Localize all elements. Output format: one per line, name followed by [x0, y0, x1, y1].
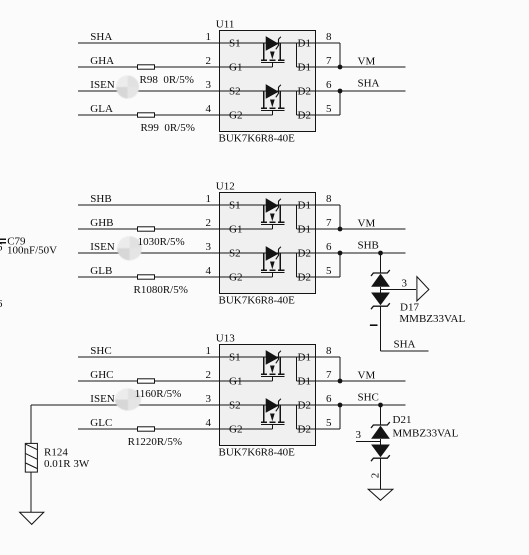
svg-text:S2: S2: [229, 86, 241, 98]
svg-text:1: 1: [206, 345, 212, 357]
svg-text:BUK7K6R8-40E: BUK7K6R8-40E: [219, 132, 296, 144]
transistor U11 MOSFET A: [261, 37, 285, 67]
svg-text:SHB: SHB: [358, 240, 379, 252]
svg-text:D2: D2: [298, 248, 311, 260]
svg-text:BUK7K6R8-40E: BUK7K6R8-40E: [219, 294, 296, 306]
svg-text:VM: VM: [358, 56, 376, 68]
wire net GLA to U11 pin4/G2 (through resistor): [78, 114, 273, 116]
svg-text:2: 2: [369, 473, 381, 479]
transistor U13 MOSFET B: [261, 399, 285, 429]
wire D17 common pin 3 to port: [381, 288, 417, 290]
redaction blob U13: [115, 389, 141, 411]
wire net GHB to U12 pin2/G1 (through resistor): [78, 228, 273, 230]
resistor R124 body (power, hatched): [25, 443, 37, 472]
svg-text:8: 8: [326, 193, 332, 205]
wire net GHC to U13 pin2/G1 (through resistor): [78, 380, 273, 382]
wire net GLB to U12 pin4/G2 (through resistor): [78, 276, 273, 278]
svg-text:D2: D2: [298, 424, 311, 436]
svg-text:MMBZ33VAL: MMBZ33VAL: [393, 427, 459, 439]
svg-text:D1: D1: [298, 38, 311, 50]
svg-text:GLA: GLA: [90, 103, 113, 115]
wire D21 pin2 down: [380, 458, 382, 489]
svg-text:6: 6: [326, 79, 332, 91]
svg-text:D2: D2: [298, 110, 311, 122]
svg-text:4: 4: [206, 103, 212, 115]
svg-text:D1: D1: [298, 62, 311, 74]
svg-text:GHB: GHB: [90, 217, 113, 229]
svg-text:D1: D1: [298, 352, 311, 364]
wire net SHB to U12 pin1/S1 and pin8 stub: [78, 204, 340, 206]
svg-text:G1: G1: [229, 62, 242, 74]
wire drain bracket D2 U11: [296, 91, 298, 115]
svg-text:7: 7: [326, 55, 332, 67]
svg-text:R1220R/5%: R1220R/5%: [128, 436, 182, 448]
junction SHC / D21: [378, 403, 383, 408]
svg-text:D21: D21: [393, 414, 412, 426]
wire U12 pin7 D1 to net VM: [297, 228, 406, 230]
svg-text:ISEN: ISEN: [90, 241, 115, 253]
transistor U12 MOSFET A: [261, 199, 285, 229]
svg-text:1: 1: [206, 193, 212, 205]
svg-text:D1: D1: [298, 200, 311, 212]
wire ISENSC to R124: [30, 405, 32, 443]
junction U13 pin7/pin8: [338, 379, 343, 384]
IC U13 body (BUK7K6R8-40E dual MOSFET): [220, 345, 316, 446]
svg-text:R1080R/5%: R1080R/5%: [134, 284, 188, 296]
svg-text:D1: D1: [298, 224, 311, 236]
wire net SHA from D17: [381, 350, 429, 352]
wire net ISEN to U12 pin3/S2 and pin6 to net SHB: [78, 252, 406, 254]
wire U13 pin7 D1 to net VM: [297, 380, 406, 382]
wire drain bracket D1 U11: [296, 43, 298, 67]
wire R124 to ground: [30, 472, 32, 512]
IC U12 body (BUK7K6R8-40E dual MOSFET): [220, 193, 316, 294]
wire drain bracket D2 U12: [296, 253, 298, 277]
wire D21 common pin 3 stub: [356, 440, 381, 442]
svg-text:S1: S1: [229, 38, 241, 50]
svg-text:8: 8: [326, 345, 332, 357]
svg-text:D2: D2: [298, 86, 311, 98]
wire pin5 to pin6 join U12: [339, 253, 341, 277]
port arrow pin 3 D17: [417, 277, 429, 301]
transistor U12 MOSFET B: [261, 247, 285, 277]
svg-text:3: 3: [356, 429, 362, 441]
wire pin5 to pin6 join U11: [339, 91, 341, 115]
svg-text:1160R/5%: 1160R/5%: [135, 388, 182, 400]
svg-text:SHA: SHA: [90, 31, 112, 43]
junction U11 pin7/pin8: [338, 65, 343, 70]
wire U13 pin5 D2 stub: [297, 428, 340, 430]
svg-text:6: 6: [326, 393, 332, 405]
svg-text:S2: S2: [229, 248, 241, 260]
svg-text:ISEN: ISEN: [90, 393, 115, 405]
svg-text:3: 3: [206, 79, 212, 91]
svg-text:GHC: GHC: [90, 369, 113, 381]
svg-text:4: 4: [206, 265, 212, 277]
svg-text:1: 1: [206, 31, 212, 43]
wire U12 pin5 D2 stub: [297, 276, 340, 278]
svg-text:BUK7K6R8-40E: BUK7K6R8-40E: [219, 446, 296, 458]
resistor R99 body: [138, 113, 155, 117]
svg-text:SHA: SHA: [358, 78, 380, 90]
svg-text:SHB: SHB: [90, 193, 111, 205]
svg-text:2: 2: [206, 369, 212, 381]
svg-text:SHC: SHC: [90, 345, 111, 357]
wire pin5 to pin6 join U13: [339, 405, 341, 429]
diode D21 dual zener MMBZ33VAL: [371, 405, 390, 461]
wire drain bracket D1 U13: [296, 357, 298, 381]
svg-text:SHC: SHC: [358, 392, 379, 404]
svg-text:D2: D2: [298, 272, 311, 284]
svg-text:100nF/50V: 100nF/50V: [7, 245, 57, 257]
svg-text:2: 2: [206, 217, 212, 229]
svg-text:MMBZ33VAL: MMBZ33VAL: [399, 313, 465, 325]
wire drain bracket D1 U12: [296, 205, 298, 229]
svg-text:GLC: GLC: [90, 417, 112, 429]
wire U11 pin7 D1 to net VM: [297, 66, 406, 68]
wire pin8 to pin7 join U12: [339, 205, 341, 229]
svg-text:U11: U11: [216, 18, 235, 30]
IC U11 body (BUK7K6R8-40E dual MOSFET): [220, 31, 316, 132]
port arrow pin 2 D21 (down): [368, 489, 393, 500]
resistor R103 body: [138, 227, 155, 231]
resistor R122 body: [138, 427, 155, 431]
svg-text:GHA: GHA: [90, 55, 114, 67]
svg-text:G2: G2: [229, 424, 242, 436]
redaction blob U11: [116, 76, 139, 99]
svg-text:R99 0R/5%: R99 0R/5%: [141, 122, 195, 134]
svg-text:D17: D17: [400, 301, 419, 313]
junction U12 pin5/pin6: [338, 251, 343, 256]
svg-text:5: 5: [326, 417, 332, 429]
svg-text:VM: VM: [358, 218, 376, 230]
svg-text:4: 4: [206, 417, 212, 429]
svg-text:2: 2: [206, 55, 212, 67]
resistor R98 body: [138, 65, 155, 69]
wire pin8 to pin7 join U13: [339, 357, 341, 381]
transistor U13 MOSFET A: [261, 351, 285, 381]
wire pin8 to pin7 join U11: [339, 43, 341, 67]
pin number 1 D17 (rotated, appears as dash): [370, 324, 378, 326]
svg-text:7: 7: [326, 217, 332, 229]
junction U11 pin5/pin6: [338, 89, 343, 94]
redaction blob U12: [117, 236, 142, 260]
svg-text:1030R/5%: 1030R/5%: [138, 236, 185, 248]
svg-text:7: 7: [326, 369, 332, 381]
junction U13 pin5/pin6: [338, 403, 343, 408]
svg-text:G2: G2: [229, 272, 242, 284]
junction SHB / D17: [378, 251, 383, 256]
resistor R116 body: [138, 379, 155, 383]
diode D17 dual zener MMBZ33VAL: [371, 253, 390, 309]
svg-text:3: 3: [402, 278, 408, 290]
wire U11 pin5 D2 stub: [297, 114, 340, 116]
svg-text:D2: D2: [298, 400, 311, 412]
wire net ISEN to U13 pin3/S2 and pin6 to net SHC: [31, 404, 405, 406]
wire drain bracket D2 U13: [296, 405, 298, 429]
svg-text:G2: G2: [229, 110, 242, 122]
svg-text:D1: D1: [298, 376, 311, 388]
svg-text:U12: U12: [216, 180, 235, 192]
svg-text:G1: G1: [229, 376, 242, 388]
svg-text:3: 3: [206, 393, 212, 405]
svg-text:5: 5: [326, 265, 332, 277]
resistor R108 body: [138, 275, 155, 279]
wire net ISEN to U11 pin3/S2 and pin6 to net SHA: [78, 90, 406, 92]
wire D17 cathode 2 down: [380, 306, 382, 351]
ground symbol: [20, 512, 44, 524]
transistor U11 MOSFET B: [261, 85, 285, 115]
svg-text:SHA: SHA: [394, 339, 416, 351]
svg-text:VM: VM: [358, 370, 376, 382]
wire net GHA to U11 pin2/G1 (through resistor): [78, 66, 273, 68]
svg-text:U13: U13: [216, 332, 235, 344]
svg-text:3: 3: [206, 241, 212, 253]
wire net SHC to U13 pin1/S1 and pin8 stub: [78, 356, 340, 358]
wire net GLC to U13 pin4/G2 (through resistor): [78, 428, 273, 430]
svg-text:R124: R124: [44, 447, 68, 459]
svg-text:0.01R 3W: 0.01R 3W: [44, 458, 90, 470]
svg-text:S2: S2: [229, 400, 241, 412]
svg-text:ISEN: ISEN: [90, 79, 115, 91]
svg-text:6: 6: [326, 241, 332, 253]
svg-text:S1: S1: [229, 200, 241, 212]
svg-text:8: 8: [326, 31, 332, 43]
svg-text:G1: G1: [229, 224, 242, 236]
junction U12 pin7/pin8: [338, 227, 343, 232]
svg-text:GLB: GLB: [90, 265, 112, 277]
svg-text:5: 5: [326, 103, 332, 115]
svg-text:S1: S1: [229, 352, 241, 364]
capacitor C79 (clipped at edge): [0, 239, 6, 243]
wire net SHA to U11 pin1/S1 and pin8 stub: [78, 42, 340, 44]
svg-text:R98 0R/5%: R98 0R/5%: [140, 74, 194, 86]
